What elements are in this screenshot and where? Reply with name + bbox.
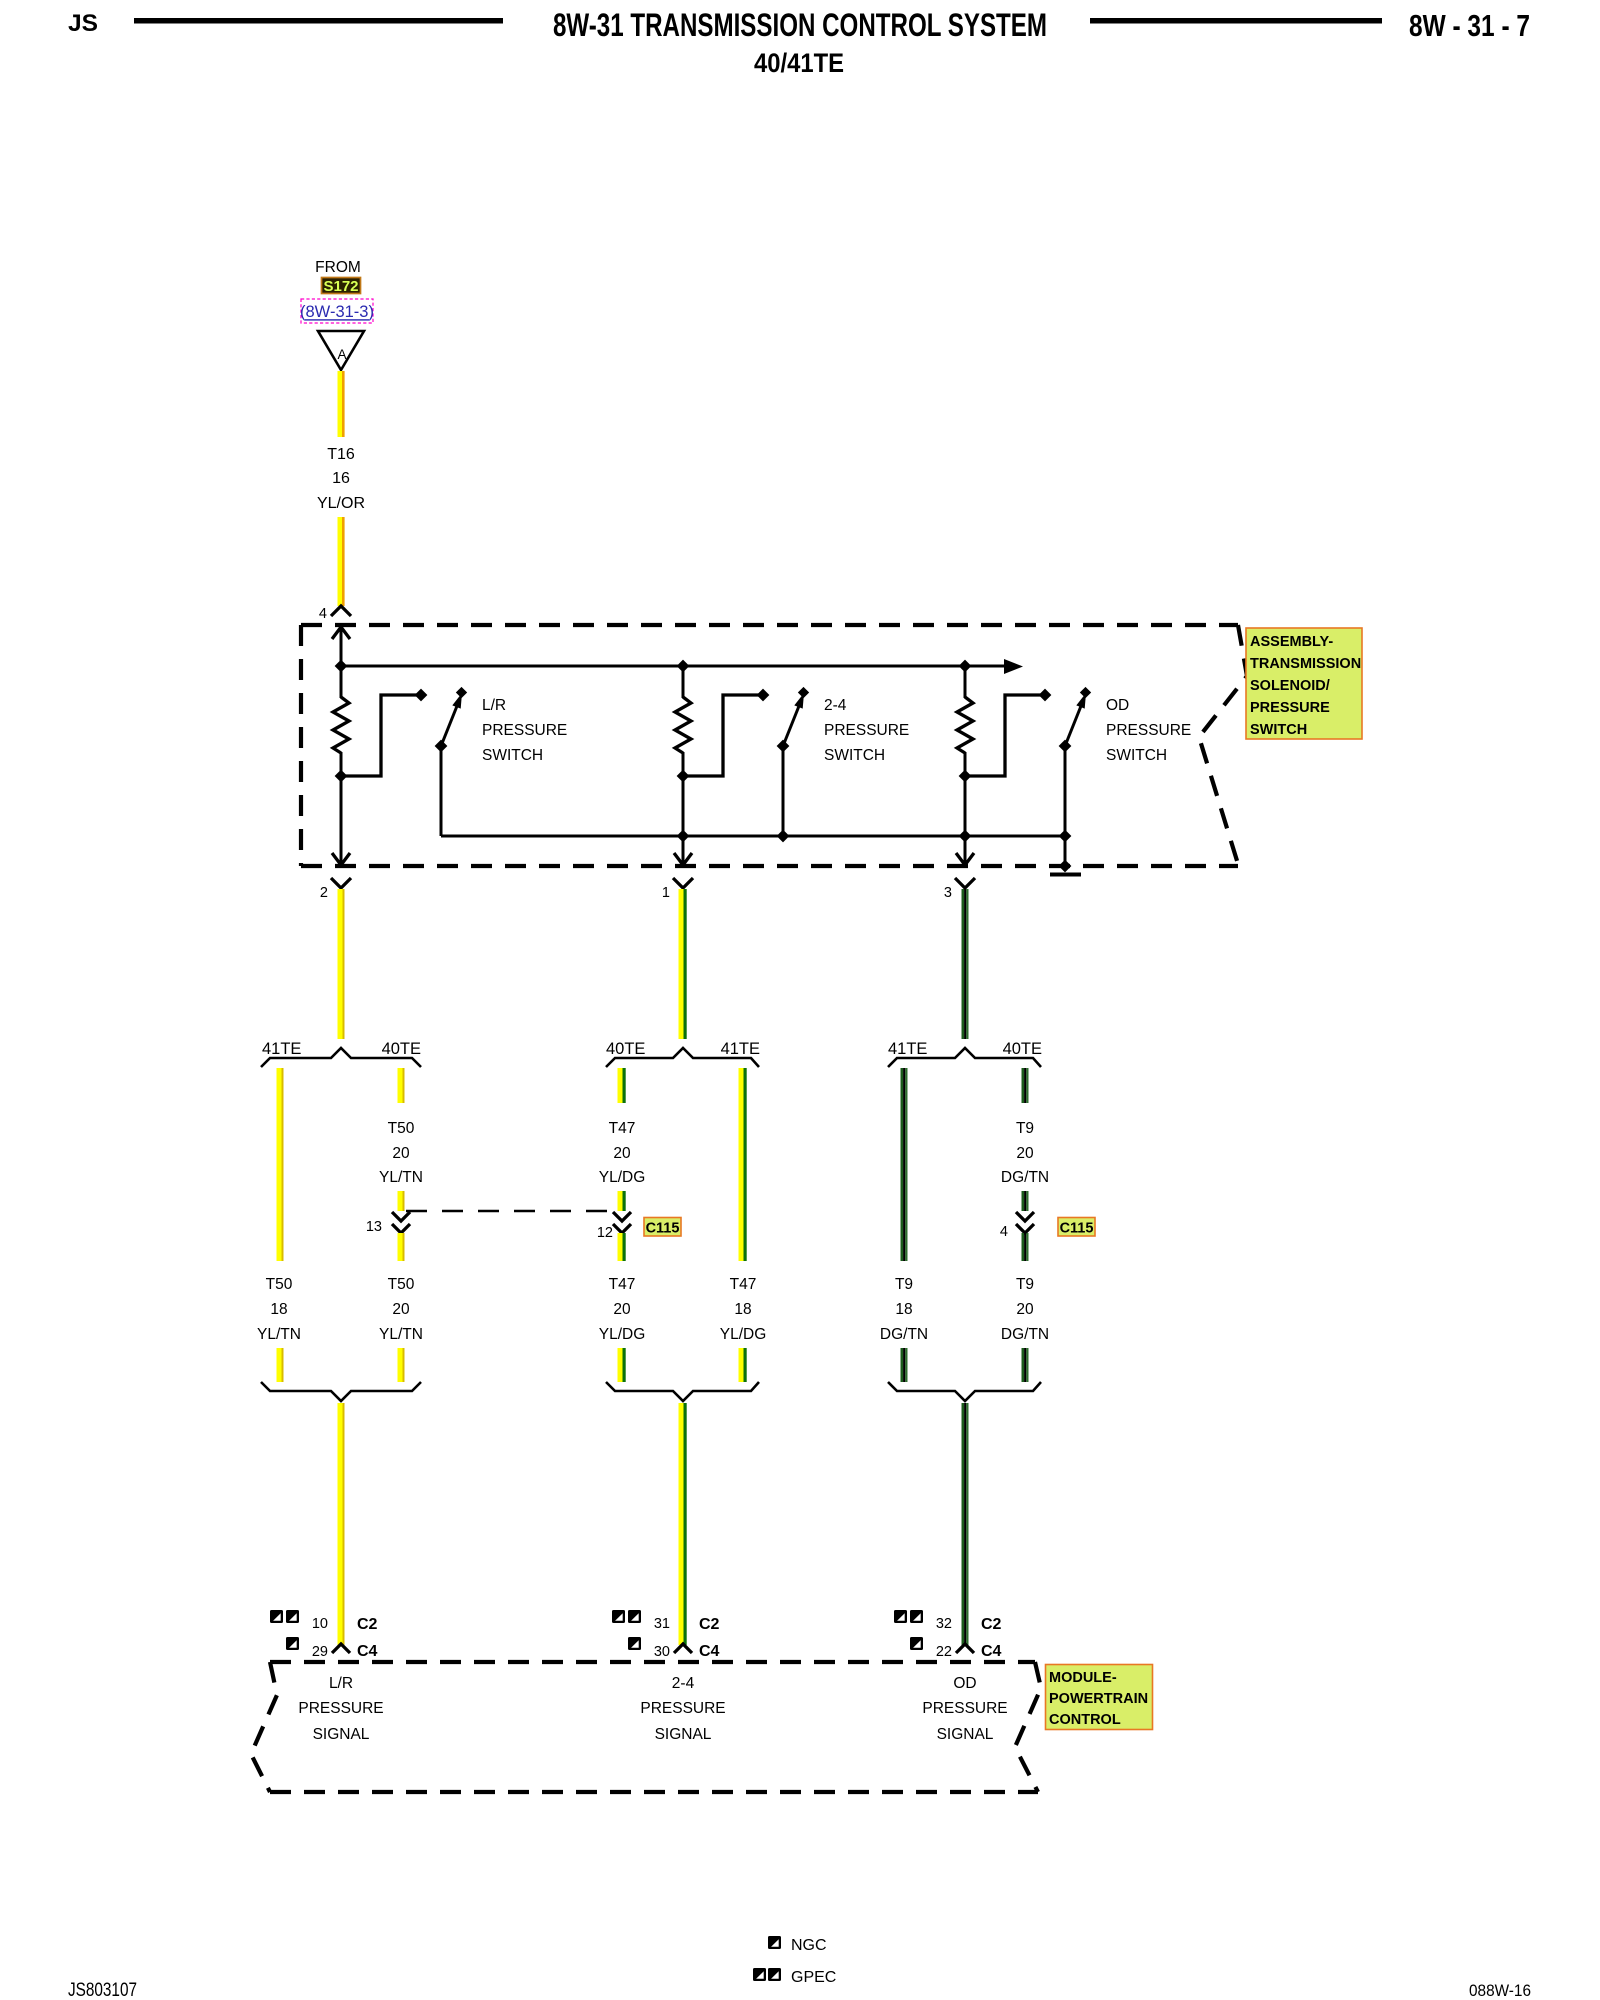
svg-text:JS803107: JS803107 [68,1980,137,2000]
module label highlight [1046,1665,1153,1730]
pin 3 connector chevron [955,878,975,888]
node ground tap [1059,860,1072,873]
ground [1050,873,1081,877]
node bus2/col3 [959,830,972,843]
pin row col1 C2 option icons [270,1610,283,1623]
svg-text:MODULE-: MODULE- [1049,1670,1117,1686]
switch S1 lower lead [440,746,443,836]
dashed jumper to C115 [406,1210,618,1213]
branch wire 40TE col1 upper YL [398,1068,405,1103]
fixed contact node switch1 [415,689,428,702]
svg-text:C2: C2 [981,1616,1002,1633]
connector C115 label column2 [644,1218,681,1237]
branch wire 41TE col3 long DG/TN [901,1068,908,1261]
svg-text:C4: C4 [357,1643,378,1660]
svg-text:PRESSURE: PRESSURE [298,1700,383,1717]
label T50 18 YL/TN lower left [257,1276,301,1343]
svg-text:SOLENOID/: SOLENOID/ [1250,678,1330,694]
svg-text:13: 13 [366,1219,382,1235]
svg-text:S172: S172 [323,278,358,295]
svg-text:40TE: 40TE [606,1040,645,1058]
branch wire 40TE col3 lower DG/TN [1022,1233,1029,1261]
assembly transmission solenoid/pressure switch dashed box [301,625,1247,866]
svg-text:TRANSMISSION: TRANSMISSION [1250,656,1361,672]
svg-text:YL/TN: YL/TN [379,1169,423,1186]
svg-text:4: 4 [1000,1224,1008,1240]
svg-text:18: 18 [270,1301,287,1318]
wire from pin 3 DG/TN [962,889,969,1039]
svg-text:C115: C115 [1060,1221,1094,1237]
pin 30 connector chevron [674,1644,692,1653]
svg-text:YL/DG: YL/DG [720,1326,767,1343]
svg-text:T47: T47 [609,1276,636,1293]
svg-text:SIGNAL: SIGNAL [655,1726,712,1743]
wire stub 40TE col2 YL/DG [618,1348,626,1382]
label L/R pressure switch [482,697,567,764]
page reference (8W-31-3) [300,299,374,323]
svg-text:DG/TN: DG/TN [880,1326,928,1343]
label L/R pressure signal [298,1675,383,1743]
pin 4 connector chevron [331,606,351,616]
svg-text:18: 18 [895,1301,912,1318]
svg-text:DG/TN: DG/TN [1001,1169,1049,1186]
pin row col2 C4 option icon [628,1637,641,1650]
svg-text:SWITCH: SWITCH [824,747,885,764]
branch wire 40TE col3 upper DG/TN [1022,1068,1029,1103]
svg-text:PRESSURE: PRESSURE [1250,700,1330,716]
junction node bus/col2 [677,660,690,673]
svg-text:20: 20 [392,1301,410,1318]
svg-text:PRESSURE: PRESSURE [1106,722,1191,739]
resistor OD pressure switch [957,697,973,753]
svg-text:OD: OD [953,1675,976,1692]
label T9 20 DG/TN upper [1001,1120,1049,1186]
svg-text:L/R: L/R [329,1675,353,1692]
pin 22 connector chevron [956,1644,974,1653]
svg-text:8W-31 TRANSMISSION CONTROL SYS: 8W-31 TRANSMISSION CONTROL SYSTEM [553,7,1047,43]
svg-text:T9: T9 [1016,1120,1034,1137]
node bus2/switch3 [1059,830,1072,843]
svg-text:088W-16: 088W-16 [1469,1981,1531,2000]
label T50 20 YL/TN upper [379,1120,423,1186]
label T47 18 YL/DG lower right [720,1276,767,1343]
svg-text:31: 31 [654,1616,670,1632]
svg-text:CONTROL: CONTROL [1049,1712,1121,1728]
branch wire 41TE col2 long YL/DG [739,1068,747,1261]
svg-text:NGC: NGC [791,1937,827,1954]
wire trunk column 1 [340,627,343,698]
label OD pressure switch [1106,697,1191,764]
junction node bus/col1 [335,660,348,673]
svg-text:41TE: 41TE [262,1040,301,1058]
pin 1 connector chevron [673,878,693,888]
svg-text:GPEC: GPEC [791,1969,836,1986]
svg-text:41TE: 41TE [888,1040,927,1058]
merge brace column 2 [606,1382,759,1401]
svg-text:20: 20 [613,1301,631,1318]
svg-text:C115: C115 [646,1221,680,1237]
svg-text:2: 2 [320,885,328,901]
svg-text:12: 12 [597,1225,613,1241]
wire label T16 16 YL/OR [317,446,365,512]
svg-text:(8W-31-3): (8W-31-3) [300,303,374,321]
svg-text:2-4: 2-4 [824,697,847,714]
label 2-4 pressure switch [824,697,909,764]
svg-text:40TE: 40TE [1003,1040,1042,1058]
svg-text:32: 32 [936,1616,952,1632]
svg-text:T9: T9 [1016,1276,1034,1293]
svg-text:T50: T50 [388,1276,415,1293]
wire from pin 2 YL [338,889,345,1039]
exit arrow down column 1 [332,853,350,865]
svg-text:T16: T16 [327,446,355,463]
svg-text:SIGNAL: SIGNAL [313,1726,370,1743]
splice brace column 1 [261,1048,421,1067]
svg-text:PRESSURE: PRESSURE [922,1700,1007,1717]
svg-text:PRESSURE: PRESSURE [824,722,909,739]
wire stub 41TE col3 DG/TN [901,1348,908,1382]
wire stub 41TE col1 YL [277,1348,284,1382]
bottom bus wire [441,835,1065,838]
svg-text:18: 18 [734,1301,751,1318]
svg-text:YL/TN: YL/TN [257,1326,301,1343]
node bus2/col2 [677,830,690,843]
svg-text:ASSEMBLY-: ASSEMBLY- [1250,634,1333,650]
connector C115 label column3 [1058,1218,1095,1237]
label 2-4 pressure signal [640,1675,725,1743]
svg-text:T50: T50 [266,1276,293,1293]
connector 12 chevrons [613,1212,631,1233]
svg-text:T9: T9 [895,1276,913,1293]
svg-text:C2: C2 [699,1616,720,1633]
wire T16 YL/OR lower segment [338,517,345,606]
exit arrow down column 3 [956,853,974,865]
pin row col1 C4 option icon [286,1637,299,1650]
svg-text:SWITCH: SWITCH [1106,747,1167,764]
wire T16 YL/OR upper segment [338,371,345,437]
wire to fixed contact switch1 [341,695,419,776]
resistor L/R pressure switch [333,697,349,753]
svg-text:1: 1 [662,885,670,901]
main wire to module col2 YL/DG [679,1403,687,1645]
entry arrow up at pin 4 inside box [332,627,350,639]
svg-text:POWERTRAIN: POWERTRAIN [1049,1691,1148,1707]
main wire to module col1 YL [338,1403,345,1645]
merge brace column 3 [888,1382,1041,1401]
fixed contact node switch2 [757,689,770,702]
wire stub 40TE col3 DG/TN [1022,1348,1029,1382]
resistor 2-4 pressure switch [675,697,691,753]
svg-text:C4: C4 [981,1643,1002,1660]
svg-text:T50: T50 [388,1120,415,1137]
svg-text:8W - 31 - 7: 8W - 31 - 7 [1409,8,1530,43]
svg-text:PRESSURE: PRESSURE [482,722,567,739]
assembly label highlight [1246,628,1362,739]
node bus2/switch2 [777,830,790,843]
svg-text:C2: C2 [357,1616,378,1633]
branch wire 40TE col2 mid YL/DG [618,1191,626,1211]
svg-text:4: 4 [319,606,327,622]
svg-text:YL/DG: YL/DG [599,1169,646,1186]
switch S1 blade [435,687,468,753]
legend GPEC option icons [753,1968,766,1981]
svg-text:OD: OD [1106,697,1129,714]
svg-text:A: A [337,347,346,362]
svg-text:SIGNAL: SIGNAL [937,1726,994,1743]
svg-text:16: 16 [332,470,350,487]
off-page connector triangle A [318,331,364,370]
svg-text:L/R: L/R [482,697,506,714]
connector 4 chevrons [1016,1212,1034,1233]
label T47 20 YL/DG lower left [599,1276,646,1343]
branch wire 41TE col1 long YL [277,1068,284,1261]
pin row col3 C4 option icon [910,1637,923,1650]
wire stub 40TE col1 YL [398,1348,405,1382]
node resistor3 bottom [959,770,972,783]
top bus arrowhead [1004,659,1023,674]
splice brace column 2 [606,1048,759,1067]
pin 2 connector chevron [331,878,351,888]
junction node bus/col3 [959,660,972,673]
svg-text:20: 20 [613,1145,631,1162]
branch wire 40TE col1 lower YL [398,1233,405,1261]
wire trunk column 3 [964,666,967,698]
branch wire 40TE col3 mid DG/TN [1022,1191,1029,1211]
svg-text:41TE: 41TE [721,1040,760,1058]
svg-text:29: 29 [312,1644,328,1660]
svg-text:20: 20 [392,1145,410,1162]
pin row col2 C2 option icons [612,1610,625,1623]
wire stub 41TE col2 YL/DG [739,1348,747,1382]
svg-text:40/41TE: 40/41TE [754,48,844,78]
switch S2 lower lead [782,746,785,836]
svg-text:YL/OR: YL/OR [317,495,365,512]
svg-text:JS: JS [68,10,98,37]
wire from pin 1 YL/DG [679,889,687,1039]
svg-text:DG/TN: DG/TN [1001,1326,1049,1343]
svg-text:YL/TN: YL/TN [379,1326,423,1343]
header rule right [1090,18,1382,24]
legend NGC option icon [768,1936,781,1949]
pin 29 connector chevron [332,1644,350,1653]
node resistor1 bottom [335,770,348,783]
svg-text:3: 3 [944,885,952,901]
branch wire 40TE col2 upper YL/DG [618,1068,626,1103]
svg-text:C4: C4 [699,1643,720,1660]
label T9 20 DG/TN lower right [1001,1276,1049,1343]
svg-text:FROM: FROM [315,259,361,276]
label T47 20 YL/DG upper [599,1120,646,1186]
switch S3 lower lead [1064,746,1067,871]
svg-text:SWITCH: SWITCH [482,747,543,764]
module powertrain control dashed box [251,1662,1041,1792]
svg-text:T47: T47 [609,1120,636,1137]
svg-text:PRESSURE: PRESSURE [640,1700,725,1717]
branch wire 40TE col1 mid YL [398,1191,405,1211]
svg-text:20: 20 [1016,1301,1034,1318]
wire to fixed contact switch3 [965,695,1043,776]
svg-text:20: 20 [1016,1145,1034,1162]
svg-text:2-4: 2-4 [672,1675,695,1692]
svg-text:T47: T47 [730,1276,757,1293]
label T9 18 DG/TN lower left [880,1276,928,1343]
connector 13 chevrons [392,1212,410,1233]
header rule left [134,18,503,24]
splice brace column 3 [888,1048,1041,1067]
wire to fixed contact switch2 [683,695,761,776]
svg-text:10: 10 [312,1616,328,1632]
svg-text:22: 22 [936,1644,952,1660]
svg-text:SWITCH: SWITCH [1250,722,1307,738]
switch S2 blade [777,687,810,753]
fixed contact node switch3 [1039,689,1052,702]
top bus wire [341,665,1006,668]
svg-text:30: 30 [654,1644,670,1660]
wire trunk column 2 [682,666,685,698]
svg-text:YL/DG: YL/DG [599,1326,646,1343]
label OD pressure signal [922,1675,1007,1743]
splice reference S172 [322,278,361,296]
exit arrow down column 2 [674,853,692,865]
main wire to module col3 DG/TN [962,1403,969,1645]
branch wire 40TE col2 lower YL/DG [618,1233,626,1261]
node resistor2 bottom [677,770,690,783]
switch S3 blade [1059,687,1092,753]
pin row col3 C2 option icons [894,1610,907,1623]
label T50 20 YL/TN lower right [379,1276,423,1343]
svg-text:40TE: 40TE [382,1040,421,1058]
merge brace column 1 [261,1382,421,1401]
